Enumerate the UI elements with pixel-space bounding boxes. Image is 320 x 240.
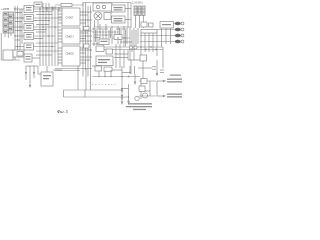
block D2 xyxy=(104,67,112,71)
motor M1 xyxy=(94,12,102,20)
block D1 xyxy=(95,66,102,71)
wire block stubs xyxy=(14,9,63,66)
wire loop bottom xyxy=(64,90,129,97)
wire out1 xyxy=(174,23,175,25)
wire drop122 arrow xyxy=(121,98,123,105)
block G2 xyxy=(139,86,145,92)
arrow out2 xyxy=(157,95,166,97)
wire E2 stubs xyxy=(38,66,62,74)
wire row84 dashed xyxy=(92,84,116,86)
svg-text:СМ022: СМ022 xyxy=(66,52,75,56)
connector X1 xyxy=(3,12,14,33)
svg-text:12 В 50Гц: 12 В 50Гц xyxy=(132,2,144,5)
block B2 xyxy=(112,16,126,23)
wire top rail xyxy=(42,3,131,12)
wire ladder xyxy=(26,66,38,82)
wire U1 pin stubs xyxy=(58,11,62,23)
wire D stubs xyxy=(92,60,131,74)
block A1 xyxy=(24,6,34,13)
wire U3 pin stubs xyxy=(58,48,62,63)
relay K1 xyxy=(93,3,112,11)
block H3 xyxy=(149,23,154,27)
block C2 xyxy=(114,35,122,40)
wire tie y88 xyxy=(122,88,129,90)
note text bottom middle xyxy=(126,103,152,110)
block G1 xyxy=(141,79,147,84)
arrow out1 xyxy=(157,80,166,82)
label out2 xyxy=(175,28,184,32)
wire bus rungs xyxy=(15,13,22,51)
op-amp U3 xyxy=(62,46,80,66)
label out row2 xyxy=(167,94,182,98)
wire out4 xyxy=(140,41,175,43)
label out4 xyxy=(175,40,184,44)
wire IC right bus xyxy=(80,3,92,77)
block C5 xyxy=(96,56,113,66)
block H1 xyxy=(160,22,174,29)
block C4 xyxy=(106,49,113,54)
wire right bus xyxy=(97,33,163,68)
block P2 xyxy=(84,27,90,31)
wire top middle xyxy=(94,3,131,29)
wire IC right pin rows xyxy=(80,15,90,63)
junction dots left xyxy=(14,8,55,47)
block C1 xyxy=(99,39,109,45)
wire mesh verticals xyxy=(94,24,138,60)
junction dots IC bus xyxy=(82,11,91,50)
wire out row2 xyxy=(139,95,156,97)
wire F2 xyxy=(156,60,164,77)
junction dots row76 xyxy=(98,76,111,77)
label out row1 xyxy=(167,79,182,83)
diode D3 xyxy=(121,88,123,91)
wire U2 pin stubs xyxy=(58,30,62,42)
label out3 xyxy=(175,34,184,38)
resistor R1 xyxy=(61,4,72,7)
wire left bus xyxy=(15,6,22,60)
label out1 xyxy=(175,22,184,26)
op-amp U1 xyxy=(62,8,80,26)
caption xyxy=(57,109,68,114)
terminal strip TB1 xyxy=(134,6,145,28)
transistor Q2 xyxy=(134,46,137,49)
wire mid bus xyxy=(40,3,58,66)
wire out2 xyxy=(157,29,175,31)
node +OPB label xyxy=(1,7,9,11)
svg-text:+ОРВ: +ОРВ xyxy=(1,7,9,11)
wire row70 xyxy=(112,66,135,74)
label 12V xyxy=(132,2,144,5)
block E0a xyxy=(3,50,13,60)
junction dots right bus xyxy=(140,46,156,50)
wire drop128 xyxy=(127,84,130,105)
op-amp U2 xyxy=(62,28,80,44)
wire under U3 xyxy=(55,66,92,90)
wire F drop xyxy=(138,61,152,79)
wire E1 stubs xyxy=(32,57,40,59)
diode D6 xyxy=(33,72,35,75)
wire mid right xyxy=(114,44,141,68)
wire out link xyxy=(156,81,158,96)
transistor Q3 xyxy=(142,93,147,98)
block A5 xyxy=(24,43,34,50)
block F1 xyxy=(140,55,147,61)
wire out3 xyxy=(140,35,175,37)
block M2 xyxy=(34,2,42,7)
junction dots bottom xyxy=(121,76,129,98)
block B1 xyxy=(112,5,126,12)
diode D4 xyxy=(121,95,123,98)
block A3 xyxy=(24,24,34,31)
transistor Q1 xyxy=(129,46,132,49)
block E0b xyxy=(13,50,24,57)
wire out row1 xyxy=(139,78,156,99)
wire row76 xyxy=(92,66,140,100)
block A2 xyxy=(24,15,34,22)
block C3 xyxy=(96,46,104,52)
block H4 xyxy=(141,30,157,34)
junction dots mesh xyxy=(96,31,124,44)
svg-text:Фиг. 5: Фиг. 5 xyxy=(57,109,68,114)
wire connector bottom stubs xyxy=(5,33,11,38)
ground arrow xyxy=(29,82,31,88)
wire left edge xyxy=(1,33,20,60)
block B0 xyxy=(104,13,111,20)
block E2 xyxy=(41,72,53,86)
wire under H1 xyxy=(162,28,171,47)
transistor Q4 xyxy=(135,96,139,100)
junction dots rail xyxy=(46,7,59,8)
svg-text:СМ017: СМ017 xyxy=(66,35,75,39)
block A6 xyxy=(24,54,32,62)
wire G links xyxy=(145,81,150,96)
block H2 xyxy=(141,22,147,27)
capacitor C1 xyxy=(152,67,156,69)
wire drops under row70 xyxy=(99,70,111,77)
wire mesh horizontals xyxy=(92,29,132,54)
block A4 xyxy=(24,33,34,40)
block P1 xyxy=(84,44,90,48)
label F right xyxy=(170,75,181,76)
diode D5 xyxy=(25,72,27,75)
svg-text:СУ007: СУ007 xyxy=(66,16,74,20)
wire drop135 arrow xyxy=(134,74,136,85)
